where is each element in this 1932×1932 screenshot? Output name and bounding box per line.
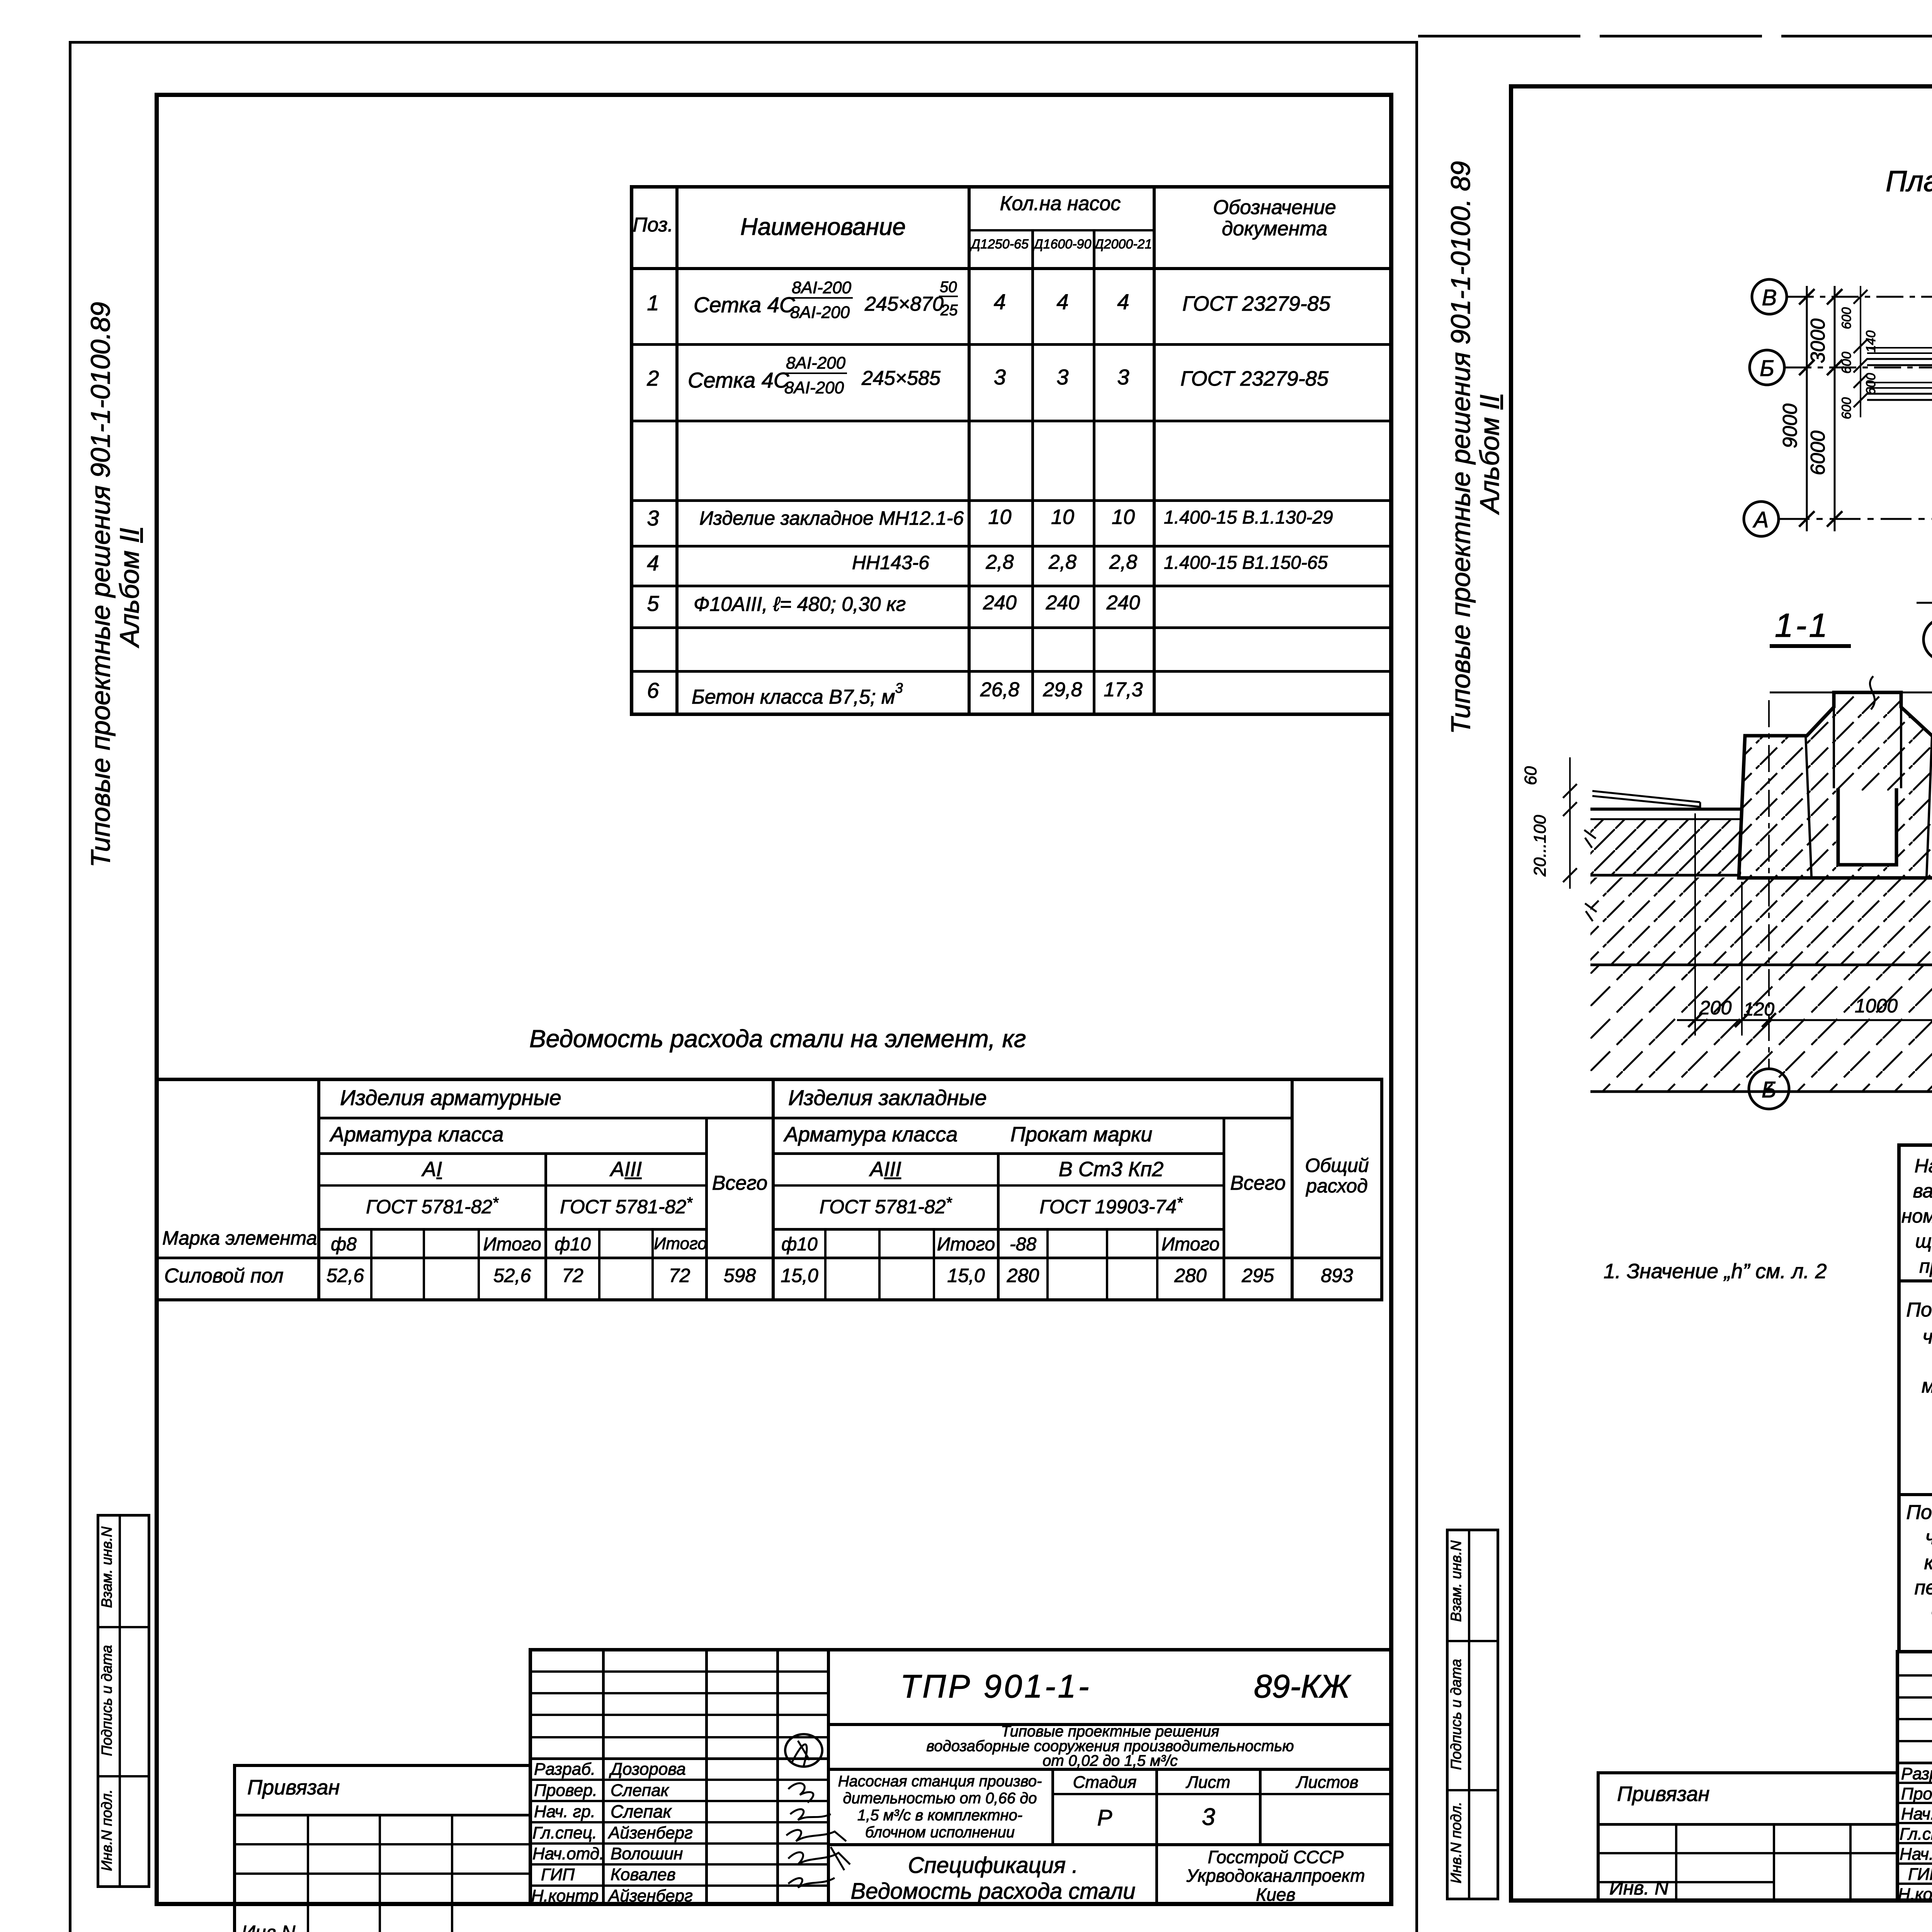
svg-text:60: 60 (1521, 766, 1540, 785)
title block left-part rows (529, 1670, 830, 1673)
right sheet top edge (dashed) (1418, 35, 1932, 37)
stamp label Подпись и дата (100, 1629, 114, 1772)
axis circle Б (1750, 350, 1784, 385)
axis line А (1779, 518, 1932, 520)
explication header texts (1901, 1153, 1932, 1279)
bottom dim line (1677, 1019, 1932, 1021)
svg-text:1000: 1000 (1855, 995, 1898, 1017)
spec row 5 (630, 592, 676, 615)
svg-text:Б: Б (1762, 1077, 1776, 1102)
left wing hatch (1590, 819, 1741, 875)
svg-text:600: 600 (1839, 307, 1854, 329)
right margin stamp boxes (1446, 1529, 1499, 1531)
svg-text:140: 140 (1864, 330, 1878, 352)
note значение h (1604, 1260, 1827, 1282)
right title block left-part rows (1896, 1674, 1932, 1677)
steel data row (164, 1265, 284, 1287)
stamp label Инв.N подл. (100, 1777, 114, 1883)
axis circle Б bottom (1749, 1069, 1789, 1109)
steel subheader row (317, 1235, 370, 1254)
right привязан box (1597, 1771, 1897, 1774)
spec row 3 (630, 507, 676, 530)
привязан labels (247, 1777, 340, 1799)
svg-text:600: 600 (1839, 397, 1854, 419)
steel horizontals (317, 1117, 1294, 1119)
svg-text:1-1: 1-1 (1775, 607, 1830, 644)
steel verticals (317, 1078, 320, 1301)
object name (831, 1773, 1049, 1841)
svg-text:120: 120 (1743, 999, 1774, 1020)
left sheet outer border (69, 41, 1417, 44)
right stamp label Подпись и дата (1449, 1643, 1464, 1786)
svg-text:200: 200 (1699, 997, 1732, 1019)
sheet name (831, 1853, 1155, 1904)
project description (831, 1724, 1389, 1768)
svg-text:Б: Б (1760, 356, 1774, 381)
axis line В (1787, 296, 1932, 298)
grid circle 4 (1923, 618, 1932, 661)
small dims 600/140/600 (1860, 286, 1861, 417)
central structure (1739, 692, 1932, 878)
left wing floor covering (1592, 791, 1700, 809)
spec header texts (630, 214, 676, 236)
title block border (529, 1648, 1393, 1651)
floor base lines (1590, 874, 1932, 877)
svg-text:600: 600 (1864, 373, 1878, 395)
stamp label Взам. инв.N (100, 1513, 114, 1621)
title block right-part rows (827, 1723, 1393, 1726)
signature rows texts (534, 1760, 595, 1778)
dim line 3000/6000 (1834, 286, 1836, 531)
left sheet inner frame (155, 93, 1393, 97)
svg-text:9000: 9000 (1779, 403, 1801, 448)
spec table horizontals (968, 229, 1156, 231)
steel consumption table title (529, 1026, 1026, 1052)
row 2 texts (1901, 1500, 1932, 1626)
dim line 18000 (1917, 602, 1932, 604)
plan title (1886, 166, 1932, 197)
left thickness dims (1569, 757, 1571, 889)
channel band 2 (1867, 381, 1932, 400)
edge break marks (1584, 830, 1597, 921)
svg-text:600: 600 (1839, 352, 1854, 374)
spec row 2 (630, 367, 676, 390)
right signature rows (1901, 1765, 1932, 1783)
svg-text:3000: 3000 (1807, 318, 1829, 363)
axis Б dash-dot (1768, 700, 1770, 1069)
channel cavity (1838, 791, 1896, 865)
steel header texts (162, 1228, 317, 1248)
channel band 1 (1867, 346, 1932, 365)
axis circle В (1752, 279, 1787, 314)
right stamp label Взам. инв.N (1449, 1527, 1464, 1635)
shaft inner wall lines (1834, 707, 1901, 788)
organization (1158, 1848, 1393, 1904)
axis line Б (1784, 367, 1932, 369)
right привязан labels (1617, 1783, 1709, 1805)
right inner frame (1509, 84, 1932, 88)
bottom dim extensions (1695, 813, 1932, 1036)
spec table verticals (675, 185, 679, 715)
svg-text:А: А (1753, 507, 1769, 532)
signature scribbles (777, 1731, 862, 1909)
right vertical album title (1447, 174, 1474, 734)
pillar inner edges (1806, 736, 1932, 876)
top break line (1770, 692, 1932, 694)
svg-text:20...100: 20...100 (1531, 815, 1549, 877)
steel table outer (155, 1078, 1383, 1081)
title block verticals (602, 1648, 605, 1905)
left vertical album title (87, 307, 114, 867)
spec row 4 (630, 552, 676, 575)
svg-text:6000: 6000 (1807, 430, 1829, 475)
svg-text:В: В (1762, 285, 1777, 310)
middle slab hatch (1590, 878, 1932, 965)
left привязан box (233, 1764, 529, 1767)
spec table outer (630, 185, 1393, 189)
стадия лист листов (1054, 1774, 1155, 1791)
bottom mass hatch (1590, 966, 1932, 1092)
spec row 1 (630, 292, 676, 315)
axis circle А (1744, 502, 1779, 536)
dim line 9000 (1806, 286, 1808, 531)
row 1 texts (1901, 1296, 1932, 1350)
spec row 6 (630, 679, 676, 702)
right stamp label Инв.N подл. (1449, 1789, 1464, 1896)
left margin stamp boxes (97, 1514, 150, 1517)
doc number (900, 1669, 1091, 1703)
